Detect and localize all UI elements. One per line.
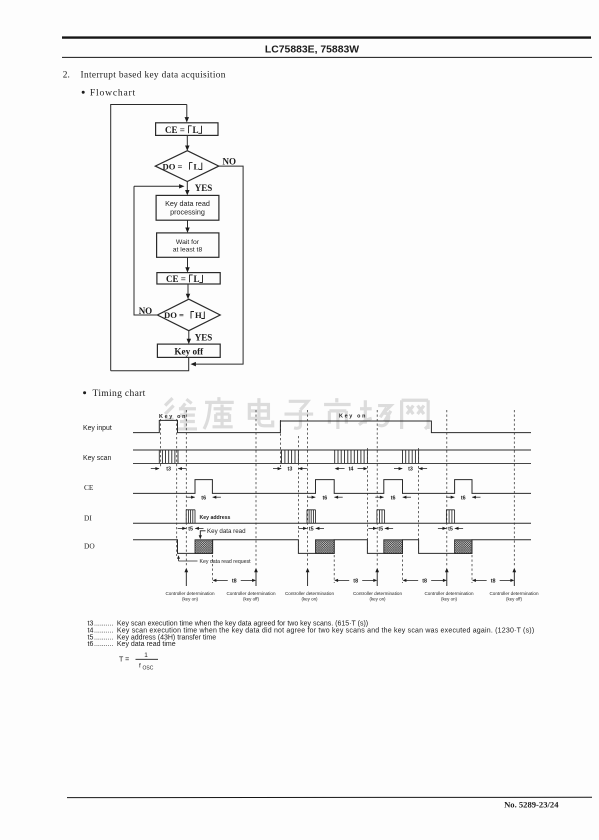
dashed: t8 left bound at x=472.0	[471, 555, 473, 583]
svg-text:Controller determination: Controller determination	[285, 591, 334, 596]
marker t8 (2)	[337, 579, 349, 581]
DI baseline	[133, 522, 531, 524]
svg-text:(key on): (key on)	[301, 596, 318, 601]
flowchart box: CE = L (first)	[156, 123, 218, 136]
wire: key off down to outer loop	[111, 357, 189, 370]
flowchart box: Wait for at least t8	[157, 233, 219, 257]
svg-text:Flowchart: Flowchart	[90, 87, 136, 98]
svg-text:Controller determination: Controller determination	[165, 591, 214, 596]
svg-text:(key off): (key off)	[243, 596, 259, 601]
arrowhead NO branch merge	[191, 362, 196, 366]
svg-text:t3: t3	[166, 467, 171, 473]
flowchart bullet	[82, 91, 85, 94]
arrowhead into second CE box	[185, 267, 189, 272]
svg-text:L: L	[194, 274, 200, 284]
marker t8 (3)	[405, 579, 418, 581]
svg-text:CE: CE	[84, 483, 94, 492]
wire: to DO=H diamond	[187, 284, 189, 296]
wire: to second CE box	[187, 257, 189, 269]
svg-text:DI: DI	[84, 513, 92, 522]
svg-text:YES: YES	[195, 333, 213, 343]
svg-text:t8: t8	[491, 579, 496, 585]
svg-text:1: 1	[144, 652, 148, 659]
marker t8 (1)	[215, 579, 228, 581]
arrowhead into DO=L diamond	[185, 146, 189, 151]
svg-text:No. 5289-23/24: No. 5289-23/24	[504, 799, 559, 809]
wire: inner loop junction	[134, 185, 182, 187]
svg-text:H: H	[195, 310, 202, 320]
svg-text:t5: t5	[448, 527, 453, 533]
dashed: controller determination instant at x=256.0	[255, 410, 257, 566]
marker t3 (burst 4)	[394, 468, 402, 470]
up arrow determination instant at x=256.0	[255, 571, 257, 586]
timing chart bullet	[83, 391, 86, 394]
dashed: t8 left bound at x=402.5	[402, 555, 404, 583]
marker t5 (DI burst 4)	[438, 527, 446, 529]
marker t6 (CE pulse 2)	[307, 496, 315, 498]
arrowhead inner loop junction	[179, 184, 184, 188]
marker t6 (CE pulse 1)	[187, 496, 195, 498]
DO data block 3 (hatched)	[384, 540, 403, 554]
arrowhead into wait box	[185, 228, 189, 233]
key input waveform	[133, 420, 531, 432]
svg-text:Key input: Key input	[83, 425, 112, 432]
svg-text:CE =: CE =	[166, 274, 186, 284]
flowchart box: Key data read processing	[156, 195, 219, 220]
DI key-address burst 1	[186, 510, 195, 524]
svg-text:Timing chart: Timing chart	[93, 388, 146, 399]
marker t4 (burst 3)	[337, 468, 344, 470]
up arrow determination instant at x=446.8	[446, 571, 448, 586]
svg-text:Controller determination: Controller determination	[489, 591, 538, 596]
flowchart box: Key off	[157, 344, 220, 357]
svg-text:t6: t6	[322, 495, 327, 501]
svg-text:Key address: Key address	[200, 515, 231, 521]
svg-text:Key on: Key on	[159, 414, 187, 420]
dashed: key on 1 rise	[160, 419, 162, 467]
dashed: controller determination instant at x=377.2	[376, 410, 378, 566]
svg-text:t6: t6	[461, 495, 466, 501]
up arrow determination instant at x=186.3	[185, 571, 187, 586]
wire: to wait box	[187, 220, 189, 230]
wire: diamond to key-data-read box	[186, 182, 188, 193]
svg-text:Interrupt based key data acqui: Interrupt based key data acquisition	[81, 70, 226, 80]
svg-text:t5: t5	[309, 527, 314, 533]
svg-text:Key scan: Key scan	[83, 455, 112, 462]
svg-text:Key scan execution time when t: Key scan execution time when the key dat…	[117, 620, 368, 627]
wire: entry into first CE box	[186, 105, 188, 120]
svg-text:T =: T =	[119, 657, 129, 664]
marker t5 (DI burst 1)	[178, 527, 186, 529]
svg-text:NO: NO	[223, 157, 237, 167]
DO data block 2 (hatched)	[316, 540, 335, 554]
dashed: controller determination instant at x=307.6	[307, 410, 309, 566]
svg-text:processing: processing	[170, 208, 205, 217]
svg-text:t3: t3	[88, 620, 94, 627]
dashed: key scan burst 3 end / DO fall	[366, 448, 368, 550]
svg-text:t3: t3	[408, 467, 413, 473]
svg-text:OSC: OSC	[143, 666, 154, 672]
arrowhead into DO=H diamond	[186, 294, 190, 299]
key scan bottom rail	[133, 462, 531, 464]
svg-text:Controller determination: Controller determination	[353, 591, 402, 596]
svg-text:Key off: Key off	[174, 347, 204, 357]
arrowhead into CE=L box	[185, 117, 189, 122]
svg-text:at least t8: at least t8	[173, 246, 203, 253]
svg-text:DO =: DO =	[164, 310, 184, 320]
DO data block 4 (hatched)	[455, 540, 472, 554]
dashed: t8 left bound at x=334.2	[333, 555, 335, 583]
svg-text:CE =: CE =	[165, 125, 185, 135]
svg-text:LC75883E, 75883W: LC75883E, 75883W	[265, 44, 359, 55]
svg-text:f: f	[139, 662, 141, 669]
marker t5 (DI burst 3)	[368, 527, 376, 529]
key scan burst 4	[403, 450, 419, 463]
dashed: key scan burst 1 end / DO fall	[176, 419, 178, 556]
dashed: key on 2 rise	[280, 420, 282, 467]
svg-text:..........: ..........	[94, 641, 114, 648]
wire: NO branch right side	[194, 166, 244, 364]
wire: to key off box	[188, 331, 190, 341]
svg-text:Key on: Key on	[339, 414, 367, 420]
svg-text:(key on): (key on)	[441, 596, 458, 601]
wire: CE box to DO diamond	[186, 135, 188, 147]
dashed: key scan burst 4 end / DO fall	[418, 448, 420, 550]
dashed: controller determination instant at x=514.3	[513, 410, 515, 566]
svg-text:L: L	[193, 125, 199, 135]
svg-text:(key off): (key off)	[506, 596, 522, 601]
marker t5 (DI burst 2)	[299, 527, 307, 529]
svg-text:DO =: DO =	[163, 161, 183, 171]
key scan burst 1	[159, 450, 178, 463]
marker t6 (CE pulse 4)	[446, 496, 454, 498]
svg-text:Key data read time: Key data read time	[117, 641, 176, 648]
svg-text:t6: t6	[88, 641, 94, 648]
flowchart diamond: DO = H	[157, 299, 220, 331]
svg-text:t6: t6	[391, 495, 396, 501]
DO data block 1 (hatched)	[195, 540, 213, 554]
svg-text:t8: t8	[422, 579, 427, 585]
wire: NO branch to inner loop	[134, 186, 157, 315]
CE waveform	[133, 480, 531, 494]
svg-text:t8: t8	[353, 579, 358, 585]
svg-text:t4: t4	[349, 467, 354, 473]
up arrow determination instant at x=307.6	[307, 571, 309, 586]
marker t6 (CE pulse 3)	[375, 496, 383, 498]
svg-text:t3: t3	[288, 467, 293, 473]
svg-text:t5: t5	[188, 527, 193, 533]
marker t3 (burst 2)	[273, 468, 281, 470]
svg-text:t8: t8	[232, 579, 237, 585]
svg-text:Controller determination: Controller determination	[424, 591, 473, 596]
svg-text:Wait for: Wait for	[176, 239, 200, 246]
svg-text:YES: YES	[195, 183, 213, 193]
svg-text:Key data read: Key data read	[207, 528, 246, 535]
watermark text (light gray)	[165, 397, 428, 429]
DO waveform	[133, 540, 531, 554]
up arrow determination instant at x=514.3	[513, 571, 515, 586]
dashed: controller determination instant at x=186.3	[185, 410, 187, 566]
flowchart diamond: DO = L	[155, 151, 219, 182]
svg-text:t5: t5	[378, 527, 383, 533]
key scan burst 3	[335, 450, 368, 463]
svg-text:t6: t6	[201, 495, 206, 501]
marker t8 (4)	[475, 579, 487, 581]
svg-text:(key on): (key on)	[182, 596, 199, 601]
key scan burst 2	[282, 450, 299, 463]
flowchart box: CE = L (second)	[157, 273, 220, 284]
arrowhead into key data read box	[185, 190, 189, 195]
marker t3 (burst 1)	[151, 468, 159, 470]
svg-text:Controller determination: Controller determination	[226, 591, 275, 596]
DI key-address burst 2	[307, 510, 316, 524]
svg-text:DO: DO	[84, 542, 95, 551]
arrowhead into key off box	[187, 339, 191, 344]
svg-text:(key on): (key on)	[369, 596, 386, 601]
header thin rule	[62, 56, 592, 58]
footer rule	[67, 796, 592, 798]
DI key-address burst 3	[377, 510, 385, 524]
svg-text:L: L	[194, 161, 200, 171]
svg-text:Key data read request: Key data read request	[200, 559, 252, 565]
up arrow determination instant at x=377.2	[376, 571, 378, 586]
flowchart outer loop	[111, 105, 187, 371]
svg-text:..........: ..........	[94, 620, 114, 627]
dashed: key scan burst 2 end / DO fall	[297, 436, 299, 550]
DI key-address burst 4	[446, 510, 454, 524]
header thick rule	[62, 36, 591, 38]
svg-text:2.: 2.	[63, 70, 70, 80]
dashed: t8 left bound at x=212.5	[212, 555, 214, 583]
dashed: controller determination instant at x=446.8	[446, 410, 448, 566]
key scan top rail	[133, 449, 531, 451]
